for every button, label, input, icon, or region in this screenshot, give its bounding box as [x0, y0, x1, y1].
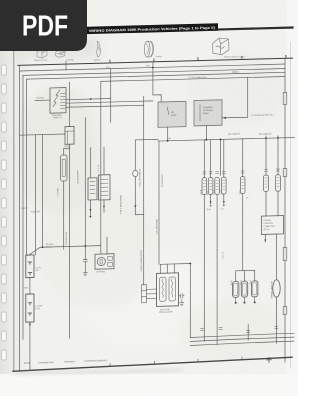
regulator capacitor [179, 294, 185, 303]
relay wires right [66, 99, 111, 100]
long wire G [84, 118, 86, 246]
regulator left connector [143, 96, 145, 285]
long trunk x69 [69, 148, 71, 338]
cruise control computer [262, 216, 284, 235]
switch link [29, 278, 31, 295]
icon vehicle speed control [213, 38, 230, 55]
capacitor on G [83, 260, 87, 262]
icon power source [37, 49, 47, 58]
gray box B [194, 100, 222, 126]
switch box S2 [26, 294, 34, 322]
bottom bus 3 [190, 341, 294, 345]
strip riser 1 [90, 148, 92, 178]
taillight branch [135, 139, 158, 214]
actuator trio [233, 270, 258, 304]
icon ignition [97, 41, 102, 57]
left inner border 2 [22, 75, 24, 339]
riser ticks [201, 326, 279, 334]
fuse F1 [64, 144, 70, 155]
relay wire left [35, 99, 50, 101]
sprocket margin strip [0, 0, 14, 378]
connector wire left [20, 134, 66, 135]
bottom bus 1 [190, 333, 294, 337]
ground capacitor [180, 303, 184, 306]
page left edge line [13, 50, 15, 372]
gray box A [158, 101, 186, 127]
icon starting [56, 51, 66, 58]
title bar [87, 23, 218, 34]
bus wire 1 [20, 64, 286, 71]
bus wire 2 [23, 69, 285, 76]
bus wire 3 [27, 72, 286, 79]
svg-text:PDF: PDF [22, 11, 68, 43]
sprocket holes [2, 65, 7, 360]
title rule line [216, 28, 293, 30]
speed sensor [273, 280, 280, 298]
switch drop [29, 322, 31, 370]
lower-left horizontal [29, 246, 101, 256]
riser stub x248 [247, 325, 249, 341]
left trunk drop [34, 135, 36, 255]
bus wire 4 [101, 77, 285, 82]
ignition connector J2 [69, 82, 71, 126]
right border connector blobs [283, 92, 287, 314]
tick [65, 64, 67, 70]
ground G [83, 273, 87, 276]
ruler ticks [66, 55, 286, 64]
ruler numbers [109, 54, 287, 63]
connector strips P1 P2 [88, 175, 110, 201]
strip riser 2 [103, 147, 105, 175]
wire box B right [222, 78, 248, 118]
icon brakes drum [144, 41, 153, 57]
fuse row1 labels [201, 188, 242, 195]
top ruler [18, 58, 293, 65]
wire drop D [153, 62, 161, 103]
box B drop [205, 126, 207, 140]
vertical trunk x190 lower [189, 264, 191, 338]
legend row [24, 359, 107, 365]
regulator top wires [160, 264, 190, 274]
fuse row 1 [202, 139, 245, 345]
left trunk drop 2 [42, 135, 44, 248]
left inner border 3 [26, 79, 28, 255]
register cross [267, 357, 272, 362]
horn relay box [95, 254, 114, 269]
bottom bus 2 [190, 337, 294, 341]
left drawing border [19, 65, 21, 371]
switch box S1 [26, 255, 34, 278]
PDF badge [0, 0, 87, 51]
main relay K1 [50, 88, 66, 114]
cruise stub left [264, 234, 266, 242]
fuse F1 drop [63, 181, 65, 249]
wire drop E [100, 81, 102, 254]
fuse row 2 [228, 131, 280, 217]
vertical trunk x220 [220, 139, 222, 175]
vertical trunk x159 [158, 141, 160, 264]
voltage regulator [157, 273, 179, 307]
junction [90, 98, 92, 100]
bottom ruler [13, 357, 292, 371]
wire drop C [110, 69, 112, 123]
horn riser [106, 237, 108, 254]
long horizontal wire N [158, 137, 295, 141]
inline connector [133, 170, 138, 177]
page right edge line [290, 42, 292, 368]
box A drop [167, 127, 169, 141]
strip drops [89, 200, 91, 217]
trio labels [231, 279, 252, 285]
right drawing border [284, 58, 286, 362]
cruise drop to sensor [276, 234, 278, 280]
bottom ruler ticks [110, 357, 242, 367]
